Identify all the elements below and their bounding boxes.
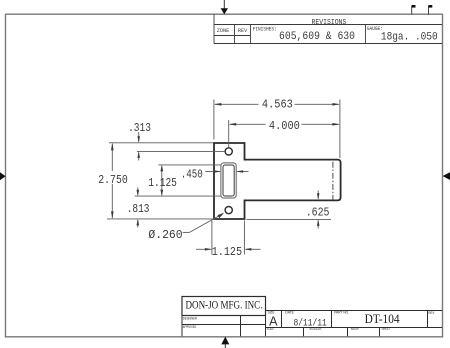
svg-text:WEIGHT: WEIGHT <box>351 326 360 331</box>
svg-text:DATE: DATE <box>285 310 294 315</box>
ext line plate top left <box>109 142 213 144</box>
fold mark 2 <box>429 5 433 14</box>
2.750 arrows <box>111 143 114 151</box>
top screw hole <box>225 148 232 155</box>
leader arrowhead <box>218 213 225 219</box>
arrowheads <box>111 103 340 251</box>
svg-text:18ga. .050: 18ga. .050 <box>381 31 438 43</box>
dim .313 stems <box>138 132 140 142</box>
dim .813 stems <box>137 188 139 196</box>
.450 arrows <box>214 170 221 173</box>
svg-text:.813: .813 <box>127 202 150 216</box>
1.125 vert arrows <box>160 165 163 172</box>
left center arrow <box>0 172 6 180</box>
svg-text:SCALE: SCALE <box>267 326 274 331</box>
4.000 arrows <box>229 123 237 126</box>
ext line plate bottom right <box>247 218 332 220</box>
.813 arrows <box>137 190 140 196</box>
svg-text:FINISHES:: FINISHES: <box>253 27 277 33</box>
svg-text:REVISIONS: REVISIONS <box>312 19 347 27</box>
revisions table <box>214 14 442 43</box>
fold mark 1 <box>412 5 416 14</box>
right center arrow <box>443 172 450 180</box>
svg-text:Ø.260: Ø.260 <box>148 228 182 242</box>
svg-text:APPROVED: APPROVED <box>183 324 197 329</box>
svg-text:4.563: 4.563 <box>262 97 293 111</box>
bottom screw hole <box>225 207 232 214</box>
ext line 4.563 left <box>213 100 215 140</box>
bend centerline dash-dot <box>332 162 334 200</box>
svg-text:.450: .450 <box>181 168 203 182</box>
ext line opening top <box>158 164 221 166</box>
plate outline <box>214 143 341 219</box>
latch opening inner <box>223 165 234 196</box>
.313 arrows <box>137 136 140 143</box>
bottom center arrow <box>221 337 229 348</box>
svg-text:.625: .625 <box>306 205 330 219</box>
ext line 4.000 left (to hole) <box>228 120 230 147</box>
don-jo box <box>182 297 266 316</box>
ext line opening bottom <box>135 195 221 197</box>
svg-text:.313: .313 <box>128 121 151 135</box>
svg-text:1.125: 1.125 <box>212 245 242 259</box>
ext line 1.125 bottom left <box>211 221 213 255</box>
dim line 2.750 <box>111 144 113 171</box>
dim 1.125 vertical line <box>161 166 163 195</box>
svg-text:REV: REV <box>428 310 434 315</box>
right section <box>266 310 443 312</box>
svg-text:RELEASE DATE: RELEASE DATE <box>310 326 322 331</box>
4.563 arrows <box>214 103 222 106</box>
svg-text:ZONE: ZONE <box>217 28 229 34</box>
svg-text:SHEET: SHEET <box>382 326 391 331</box>
latch opening outer <box>221 163 236 198</box>
svg-text:4.000: 4.000 <box>269 119 300 133</box>
svg-text:PART NO.: PART NO. <box>334 310 349 315</box>
dim .450 lines <box>205 171 220 173</box>
.625 arrows <box>317 193 320 200</box>
1.125 bottom arrows <box>205 248 212 251</box>
svg-text:DT-104: DT-104 <box>365 311 400 326</box>
svg-text:2.750: 2.750 <box>98 173 128 187</box>
svg-text:1.125: 1.125 <box>148 176 177 190</box>
dim .625 stems <box>317 191 319 199</box>
dim line 4.563 <box>215 103 259 105</box>
dim line 4.000 <box>230 123 266 125</box>
svg-text:DON-JO MFG. INC.: DON-JO MFG. INC. <box>186 300 263 312</box>
ext line 4.563 right <box>339 100 341 159</box>
dim line 1.125 bottom <box>196 248 211 250</box>
svg-text:REV: REV <box>238 28 248 34</box>
leader 0.260 <box>183 231 190 233</box>
ext line plate bottom left <box>107 218 213 220</box>
ext line 1.125 bottom right <box>243 221 245 255</box>
ext line hole center <box>137 150 225 152</box>
top center arrow <box>221 0 228 14</box>
svg-text:DESIGNER: DESIGNER <box>183 315 197 320</box>
svg-text:605,609 & 630: 605,609 & 630 <box>279 31 355 43</box>
